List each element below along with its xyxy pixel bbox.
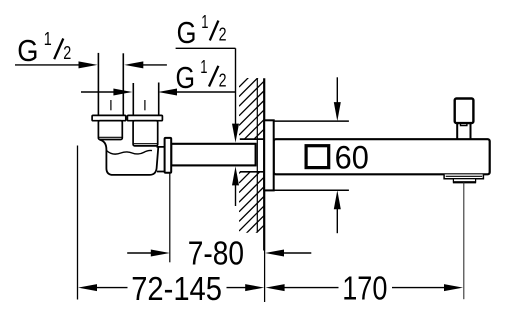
elbow shoulder contour bbox=[107, 150, 152, 154]
label G 1/2 top center bbox=[177, 12, 227, 50]
svg-text:1: 1 bbox=[200, 57, 207, 77]
union nut 2 inner line bbox=[134, 143, 157, 145]
leader line G1/2 middle bbox=[176, 91, 235, 93]
label G 1/2 top left bbox=[17, 29, 71, 68]
wall extension line bbox=[264, 251, 266, 303]
extension line ring face bbox=[169, 174, 171, 263]
svg-text:2: 2 bbox=[219, 24, 227, 44]
svg-text:1: 1 bbox=[44, 29, 52, 49]
leader line G1/2 left bbox=[15, 64, 80, 66]
square symbol bbox=[306, 146, 329, 168]
wall escutcheon bbox=[264, 120, 274, 190]
aerator step 1 bbox=[444, 174, 483, 178]
dim 7-80 left arrow bbox=[127, 250, 170, 257]
svg-text:60: 60 bbox=[335, 138, 369, 175]
elbow outlet stub bbox=[157, 147, 165, 172]
svg-text:2: 2 bbox=[63, 43, 71, 63]
tail line pipe2 left arrow bbox=[81, 91, 114, 93]
spout body bbox=[274, 139, 490, 174]
arrow down at pipe top bbox=[232, 124, 239, 143]
knob notch bbox=[461, 123, 467, 126]
underline G1/2 center bbox=[176, 47, 236, 49]
arrow at pipe1 right bbox=[124, 61, 143, 68]
pipe 2 center dash bbox=[144, 100, 146, 110]
arrow at pipe1 left bbox=[79, 61, 98, 68]
pipe 1 center dash bbox=[110, 100, 112, 110]
supply pipe 1 bbox=[98, 53, 123, 116]
aerator step 1 inner line bbox=[446, 175, 482, 177]
spout rear sleeve top line bbox=[240, 138, 265, 140]
arrow at pipe2 right bbox=[158, 89, 177, 96]
svg-text:2: 2 bbox=[219, 70, 227, 90]
svg-text:G: G bbox=[17, 33, 38, 68]
tail line pipe1 right arrow bbox=[143, 64, 167, 66]
knob stem bbox=[457, 123, 470, 139]
escutcheon bottom extension line bbox=[274, 189, 349, 191]
extension line left bbox=[77, 146, 79, 300]
union flange plate right bbox=[127, 115, 162, 120]
aerator step 2 bbox=[453, 179, 475, 182]
union nut 1 inner line bbox=[99, 136, 122, 138]
wall inner line bbox=[256, 78, 258, 232]
wall hatching bbox=[239, 62, 264, 260]
svg-text:G: G bbox=[176, 60, 196, 95]
escutcheon dim arrow down bbox=[334, 77, 341, 121]
elbow body bbox=[100, 140, 159, 175]
union flange plate left bbox=[92, 115, 126, 120]
wall face line bbox=[263, 78, 265, 250]
union nut 2 bbox=[133, 121, 158, 146]
svg-text:1: 1 bbox=[201, 12, 208, 32]
escutcheon dim arrow up bbox=[334, 190, 341, 233]
dim 170 bbox=[266, 284, 463, 291]
water stream extension line bbox=[463, 182, 465, 299]
dim 72-145 bbox=[78, 284, 264, 291]
label G 1/2 middle bbox=[176, 57, 227, 95]
arrow at pipe2 left bbox=[113, 89, 132, 96]
dim 7-80 right arrow bbox=[265, 250, 311, 257]
svg-text:170: 170 bbox=[342, 271, 387, 308]
arrow up at pipe bottom bbox=[232, 166, 239, 185]
diverter knob bbox=[455, 99, 474, 124]
union nut 1 bbox=[98, 121, 122, 140]
spout rear sleeve bottom line bbox=[240, 171, 265, 173]
svg-text:G: G bbox=[177, 16, 197, 50]
drop line to pipe bbox=[235, 48, 237, 124]
escutcheon top extension line bbox=[274, 120, 349, 122]
svg-text:7-80: 7-80 bbox=[188, 235, 244, 272]
tail line pipe bottom arrow bbox=[235, 185, 237, 206]
pipe flange ring bbox=[165, 138, 172, 173]
supply pipe 2 bbox=[133, 83, 158, 116]
svg-text:72-145: 72-145 bbox=[131, 271, 222, 308]
aerator step 2 bottom edge bbox=[453, 181, 476, 183]
connection pipe to wall bbox=[171, 144, 255, 166]
